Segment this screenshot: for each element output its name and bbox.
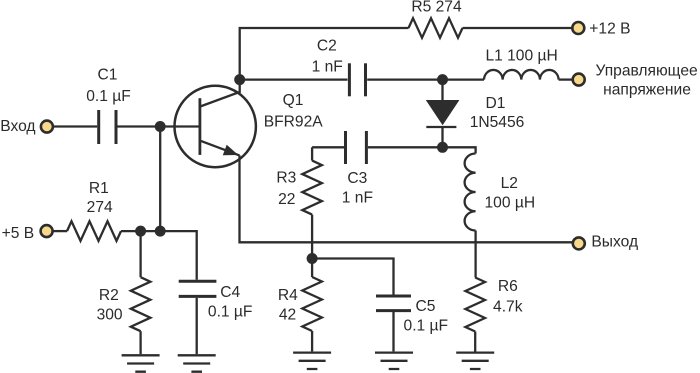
- svg-text:R2: R2: [99, 287, 119, 304]
- svg-text:274: 274: [87, 199, 113, 216]
- svg-text:0.1 µF: 0.1 µF: [208, 304, 253, 321]
- svg-text:0.1 µF: 0.1 µF: [404, 318, 449, 335]
- svg-text:L1 100 µH: L1 100 µH: [485, 47, 557, 64]
- svg-text:C4: C4: [220, 284, 240, 301]
- svg-text:L2: L2: [501, 175, 518, 192]
- svg-text:300: 300: [97, 306, 123, 323]
- svg-text:+5 В: +5 В: [2, 225, 35, 242]
- svg-text:4.7k: 4.7k: [493, 298, 523, 315]
- svg-text:0.1 µF: 0.1 µF: [86, 88, 131, 105]
- svg-text:R1: R1: [89, 180, 109, 197]
- svg-text:R6: R6: [498, 278, 518, 295]
- svg-text:C1: C1: [98, 67, 118, 84]
- svg-text:1N5456: 1N5456: [470, 114, 525, 131]
- svg-text:напряжение: напряжение: [603, 81, 691, 98]
- svg-text:Управляющее: Управляющее: [596, 63, 698, 80]
- svg-text:1 nF: 1 nF: [342, 190, 373, 207]
- svg-text:100 µH: 100 µH: [484, 195, 535, 212]
- svg-text:22: 22: [278, 191, 295, 208]
- svg-text:+12 В: +12 В: [589, 21, 630, 38]
- svg-text:Вход: Вход: [0, 118, 35, 135]
- svg-text:R4: R4: [278, 287, 298, 304]
- svg-text:Выход: Выход: [591, 234, 638, 251]
- svg-text:R3: R3: [276, 169, 296, 186]
- svg-text:R5 274: R5 274: [411, 0, 462, 16]
- svg-text:C5: C5: [416, 298, 436, 315]
- svg-text:Q1: Q1: [283, 92, 304, 109]
- svg-text:D1: D1: [486, 95, 506, 112]
- svg-text:C2: C2: [317, 37, 337, 54]
- svg-text:BFR92A: BFR92A: [264, 113, 324, 130]
- svg-text:42: 42: [279, 306, 296, 323]
- svg-text:C3: C3: [347, 170, 367, 187]
- svg-text:1 nF: 1 nF: [312, 58, 343, 75]
